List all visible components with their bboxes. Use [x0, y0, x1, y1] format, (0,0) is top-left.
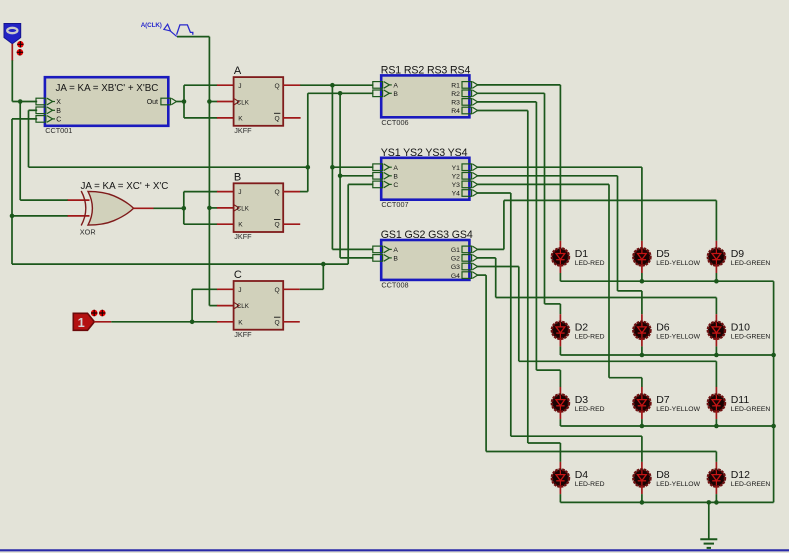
A Q stub [283, 84, 300, 86]
wire D4 cathode [559, 494, 561, 502]
label JKFF B [234, 232, 252, 241]
junction net1 [190, 320, 195, 325]
junction riser bus2 [771, 353, 776, 358]
svg-text:CCT008: CCT008 [381, 280, 408, 289]
svg-text:Q: Q [275, 287, 280, 294]
B Q stub [283, 191, 300, 193]
wire to XOR input 1 [20, 199, 68, 201]
wire X node down [19, 102, 21, 201]
wire D5 cathode [641, 273, 643, 281]
wire Y3 to D7 [477, 184, 642, 387]
wire to XOR input 2 [12, 215, 68, 217]
CCT001 pin X [36, 98, 61, 106]
wire JB vertical [183, 192, 185, 225]
wire net A to GS A [332, 248, 373, 250]
svg-text:JKFF: JKFF [234, 126, 252, 135]
wire XOR out [154, 207, 184, 209]
junction bus2 D6 [640, 353, 645, 358]
svg-text:D4: D4 [575, 469, 589, 481]
B J stub [217, 191, 234, 193]
logic state terminal 0 [4, 24, 21, 44]
wire net C horizontal [12, 263, 348, 265]
wire D11 cathode [715, 419, 717, 426]
wire Y4 to D8 [477, 193, 642, 462]
wire D10 cathode [715, 346, 717, 355]
logic state terminal 1 [73, 313, 94, 330]
A Qbar stub [283, 117, 300, 119]
wire clock to vertical [177, 36, 209, 38]
junction net C [321, 262, 326, 267]
svg-text:Y1: Y1 [452, 165, 461, 172]
svg-text:B: B [393, 174, 398, 181]
svg-text:B: B [393, 91, 398, 98]
LED D2 LED-RED [552, 314, 605, 346]
CCT007 label [381, 200, 408, 209]
junction bus1 D5 [640, 279, 645, 284]
svg-text:Y4: Y4 [452, 191, 461, 198]
wire CCT001 Out [176, 101, 184, 103]
A CLK stub [217, 101, 234, 103]
CCT001 title JA = KA = XB'C' + X'BC [56, 83, 159, 94]
XOR output stub [134, 207, 154, 209]
cathode bus row 3 [560, 425, 773, 427]
CCT007 pin C [373, 181, 399, 189]
wire net B to GS B [340, 257, 373, 259]
CCT007 pin Y4 [452, 190, 478, 198]
junction riser bus3 [771, 424, 776, 429]
B Qbar stub [283, 223, 300, 225]
CCT008 pin B [373, 255, 399, 263]
C CLK stub [217, 305, 234, 307]
svg-text:LED-RED: LED-RED [575, 406, 605, 413]
svg-text:B: B [234, 171, 241, 183]
svg-text:R3: R3 [451, 100, 460, 107]
C J stub [217, 288, 234, 290]
wire R2 to D2 [477, 93, 560, 314]
svg-text:LED-GREEN: LED-GREEN [731, 481, 771, 488]
junction net B YS [338, 174, 343, 179]
svg-text:CLK: CLK [237, 206, 250, 213]
CCT008 pin G2 [451, 255, 478, 263]
svg-text:B: B [56, 108, 61, 115]
svg-text:1: 1 [78, 315, 85, 330]
svg-text:G3: G3 [451, 264, 460, 271]
wire G2 to D10 [477, 258, 716, 314]
svg-text:LED-RED: LED-RED [575, 481, 605, 488]
svg-text:G2: G2 [451, 256, 460, 263]
wire Y1 to D5 [477, 167, 642, 241]
svg-text:LED-YELLOW: LED-YELLOW [656, 260, 700, 267]
wire R3 to D3 [477, 102, 560, 387]
svg-text:JA = KA = XB'C' + X'BC: JA = KA = XB'C' + X'BC [56, 83, 159, 94]
CCT006 pin R2 [451, 90, 477, 98]
wire net A to YS A [332, 166, 373, 168]
CCT001 label [45, 126, 72, 135]
junction net B right [338, 91, 343, 96]
junction net B left [306, 165, 311, 170]
svg-text:JKFF: JKFF [234, 232, 252, 241]
wire net C to YS C [348, 184, 373, 264]
svg-text:LED-YELLOW: LED-YELLOW [656, 406, 700, 413]
wire net B riser [300, 93, 308, 191]
junction bus3 D11 [714, 424, 719, 429]
wire terminal0 down to X node [12, 60, 37, 101]
origin markers of terminal 1 [91, 310, 106, 317]
wire G3 to D11 [477, 267, 716, 388]
svg-text:D12: D12 [731, 469, 750, 481]
CCT006 pin A [373, 82, 399, 90]
CCT001 pin B [36, 107, 61, 115]
sheet border bottom [0, 549, 789, 551]
svg-text:CLK: CLK [237, 99, 250, 106]
cathode bus row 1 [560, 280, 773, 282]
CCT008 pin G4 [451, 272, 478, 280]
junction bus1 D9 [714, 279, 719, 284]
wire D3 cathode [559, 419, 561, 426]
svg-text:LED-RED: LED-RED [575, 260, 605, 267]
origin markers of terminal 0 [17, 41, 24, 56]
svg-text:CCT006: CCT006 [381, 118, 408, 127]
svg-text:J: J [238, 83, 241, 90]
LED D6 LED-YELLOW [633, 314, 700, 346]
svg-text:YS1 YS2 YS3 YS4: YS1 YS2 YS3 YS4 [381, 147, 468, 159]
svg-text:Y3: Y3 [452, 182, 461, 189]
wire JA vertical [183, 85, 185, 118]
svg-text:CCT007: CCT007 [381, 200, 408, 209]
junction clock A [207, 99, 212, 104]
CCT008 pin G3 [451, 263, 478, 271]
CCT006 label [381, 118, 408, 127]
CCT006 pin R1 [451, 82, 477, 90]
wire net B vertical right [339, 93, 341, 258]
svg-text:G4: G4 [451, 273, 460, 280]
subcircuit CCT006 box [381, 75, 469, 117]
C K stub [217, 321, 234, 323]
CCT006 pin B [373, 90, 399, 98]
LED D11 LED-GREEN [708, 387, 771, 419]
wire net C riser [300, 264, 324, 289]
subcircuit CCT007 box [381, 158, 469, 200]
CCT007 pin Y3 [452, 181, 478, 189]
svg-text:RS1 RS2 RS3 RS4: RS1 RS2 RS3 RS4 [381, 64, 471, 76]
junction bus2 D10 [714, 353, 719, 358]
svg-text:Q: Q [275, 83, 280, 90]
CCT008 title GS1 GS2 GS3 GS4 [381, 229, 473, 241]
junction bus3 D7 [640, 424, 645, 429]
subcircuit CCT001 box [45, 77, 168, 126]
svg-text:R4: R4 [451, 108, 460, 115]
svg-text:D11: D11 [731, 394, 750, 406]
svg-text:J: J [238, 287, 241, 294]
subcircuit CCT008 box [381, 240, 469, 280]
A K stub [217, 117, 234, 119]
wire terminal1 to K of C [111, 321, 217, 323]
svg-text:D5: D5 [656, 248, 670, 260]
svg-text:D7: D7 [656, 394, 670, 406]
svg-text:B: B [393, 256, 398, 263]
wire right riser [773, 281, 775, 502]
cathode bus row 2 [560, 354, 773, 356]
svg-text:Q: Q [275, 116, 280, 123]
svg-text:GS1 GS2 GS3 GS4: GS1 GS2 GS3 GS4 [381, 229, 473, 241]
wire R4 to D4 [477, 111, 560, 462]
node X junction [18, 99, 23, 104]
wire terminal1 red segment [94, 321, 111, 323]
LED D10 LED-GREEN [708, 314, 771, 346]
flip-flop C (JKFF) [234, 281, 284, 330]
wire net1 vertical [191, 289, 193, 322]
label A [234, 65, 242, 77]
flip-flop B (JKFF) [234, 183, 284, 232]
wire D8 cathode [641, 494, 643, 502]
ground bus row 4 [560, 501, 773, 503]
wire R1 to D1 [477, 85, 560, 241]
svg-text:CCT001: CCT001 [45, 126, 72, 135]
svg-text:A: A [393, 247, 398, 254]
svg-text:Out: Out [147, 99, 158, 106]
label XOR [80, 227, 96, 236]
wire net C to CCT001 C [12, 118, 37, 120]
svg-text:A: A [393, 83, 398, 90]
label JKFF A [234, 126, 252, 135]
ground [700, 502, 717, 548]
clock generator A(CLK) label [141, 22, 162, 29]
B K stub [217, 223, 234, 225]
CCT006 pin R3 [451, 99, 477, 107]
flip-flop A (JKFF) [234, 77, 284, 126]
svg-text:Q: Q [275, 189, 280, 196]
svg-text:LED-YELLOW: LED-YELLOW [656, 334, 700, 341]
svg-text:R1: R1 [451, 83, 460, 90]
wire clock vertical [208, 37, 210, 306]
wire clock to B CLK [209, 207, 217, 209]
svg-text:D2: D2 [575, 322, 589, 334]
XOR input 1 stub [68, 199, 90, 201]
svg-text:D8: D8 [656, 469, 670, 481]
LED D5 LED-YELLOW [633, 241, 700, 273]
LED D7 LED-YELLOW [633, 387, 700, 419]
CCT006 title RS1 RS2 RS3 RS4 [381, 64, 471, 76]
wire D1 cathode [559, 273, 561, 281]
wire JB to K of B [184, 223, 218, 225]
junction net A [330, 83, 335, 88]
CCT008 pin A [373, 246, 399, 254]
junction bus4 D12 [714, 500, 719, 505]
C Q stub [283, 288, 300, 290]
wire net B to YS B [340, 175, 373, 177]
C Qbar stub [283, 321, 300, 323]
junction bus4 D8 [640, 500, 645, 505]
LED D12 LED-GREEN [708, 462, 771, 494]
svg-text:LED-GREEN: LED-GREEN [731, 334, 771, 341]
svg-text:LED-GREEN: LED-GREEN [731, 406, 771, 413]
svg-text:Y2: Y2 [452, 174, 461, 181]
wire G4 to D12 [477, 275, 716, 462]
CCT001 pin C [36, 116, 61, 124]
junction net A YS [330, 165, 335, 170]
wire JA to K of A [184, 117, 217, 119]
svg-text:D1: D1 [575, 248, 589, 260]
wire net A vertical [331, 85, 333, 249]
LED D8 LED-YELLOW [633, 462, 700, 494]
wire net A to RS1 A [300, 84, 373, 86]
label JKFF C [234, 330, 252, 339]
LED D9 LED-GREEN [708, 241, 771, 273]
CCT007 pin Y2 [452, 173, 478, 181]
svg-text:LED-RED: LED-RED [575, 334, 605, 341]
svg-text:J: J [238, 189, 241, 196]
label C [234, 269, 242, 281]
wire net B to RS1 B [308, 92, 374, 94]
junction JA net [182, 99, 187, 104]
wire net C left vertical [11, 119, 13, 264]
svg-text:X: X [56, 99, 61, 106]
wire net B to CCT001 B [29, 110, 308, 167]
svg-text:A: A [234, 65, 242, 77]
CCT007 pin A [373, 164, 399, 172]
CCT007 title YS1 YS2 YS3 YS4 [381, 147, 468, 159]
svg-text:CLK: CLK [237, 303, 250, 310]
CCT008 pin G1 [451, 246, 478, 254]
svg-text:Q: Q [275, 222, 280, 229]
junction bus4 ground stem [707, 500, 712, 505]
wire D6 cathode [641, 346, 643, 355]
LED D1 LED-RED [552, 241, 605, 273]
wire G1 to D9 [477, 200, 716, 249]
wire clock to A CLK [209, 101, 217, 103]
XOR title JA = KA = XC' + X'C [81, 181, 169, 192]
svg-text:C: C [56, 117, 61, 124]
wire D7 cathode [641, 419, 643, 426]
CCT008 label [381, 280, 408, 289]
LED D3 LED-RED [552, 387, 605, 419]
junction clock B [207, 206, 212, 211]
svg-text:LED-GREEN: LED-GREEN [731, 260, 771, 267]
CCT007 pin Y1 [452, 164, 478, 172]
wire D9 cathode [715, 273, 717, 281]
junction JB net [182, 206, 187, 211]
CCT001 pin Out [147, 98, 177, 106]
XOR input 2 stub [68, 215, 90, 217]
junction net C XOR [10, 214, 15, 219]
wire clock to C CLK [209, 305, 217, 307]
svg-text:A: A [393, 165, 398, 172]
wire Y2 to D6 [477, 176, 642, 314]
svg-text:C: C [393, 182, 398, 189]
svg-text:JA = KA = XC' + X'C: JA = KA = XC' + X'C [81, 181, 169, 192]
svg-text:D9: D9 [731, 248, 745, 260]
svg-text:K: K [238, 222, 243, 229]
svg-text:D10: D10 [731, 322, 750, 334]
svg-text:JKFF: JKFF [234, 330, 252, 339]
CCT006 pin R4 [451, 107, 477, 115]
svg-text:D6: D6 [656, 322, 670, 334]
svg-text:G1: G1 [451, 247, 460, 254]
wire D12 cathode [715, 494, 717, 502]
A J stub [217, 84, 234, 86]
svg-text:LED-YELLOW: LED-YELLOW [656, 481, 700, 488]
svg-text:R2: R2 [451, 91, 460, 98]
svg-text:D3: D3 [575, 394, 589, 406]
wire net1 to J of C [192, 288, 217, 290]
XOR gate [81, 191, 133, 226]
svg-text:K: K [238, 319, 243, 326]
svg-text:C: C [234, 269, 242, 281]
wire JB to J of B [184, 191, 218, 193]
wire JA to J of A [184, 84, 217, 86]
svg-text:K: K [238, 116, 243, 123]
svg-text:Q: Q [275, 319, 280, 326]
LED D4 LED-RED [552, 462, 605, 494]
wire D2 cathode [559, 346, 561, 355]
B CLK stub [217, 207, 234, 209]
label B [234, 171, 241, 183]
svg-text:XOR: XOR [80, 227, 96, 236]
clock generator symbol [164, 24, 193, 36]
wire terminal0 red segment [11, 44, 13, 61]
svg-text:A(CLK): A(CLK) [141, 22, 162, 29]
CCT007 pin B [373, 173, 399, 181]
